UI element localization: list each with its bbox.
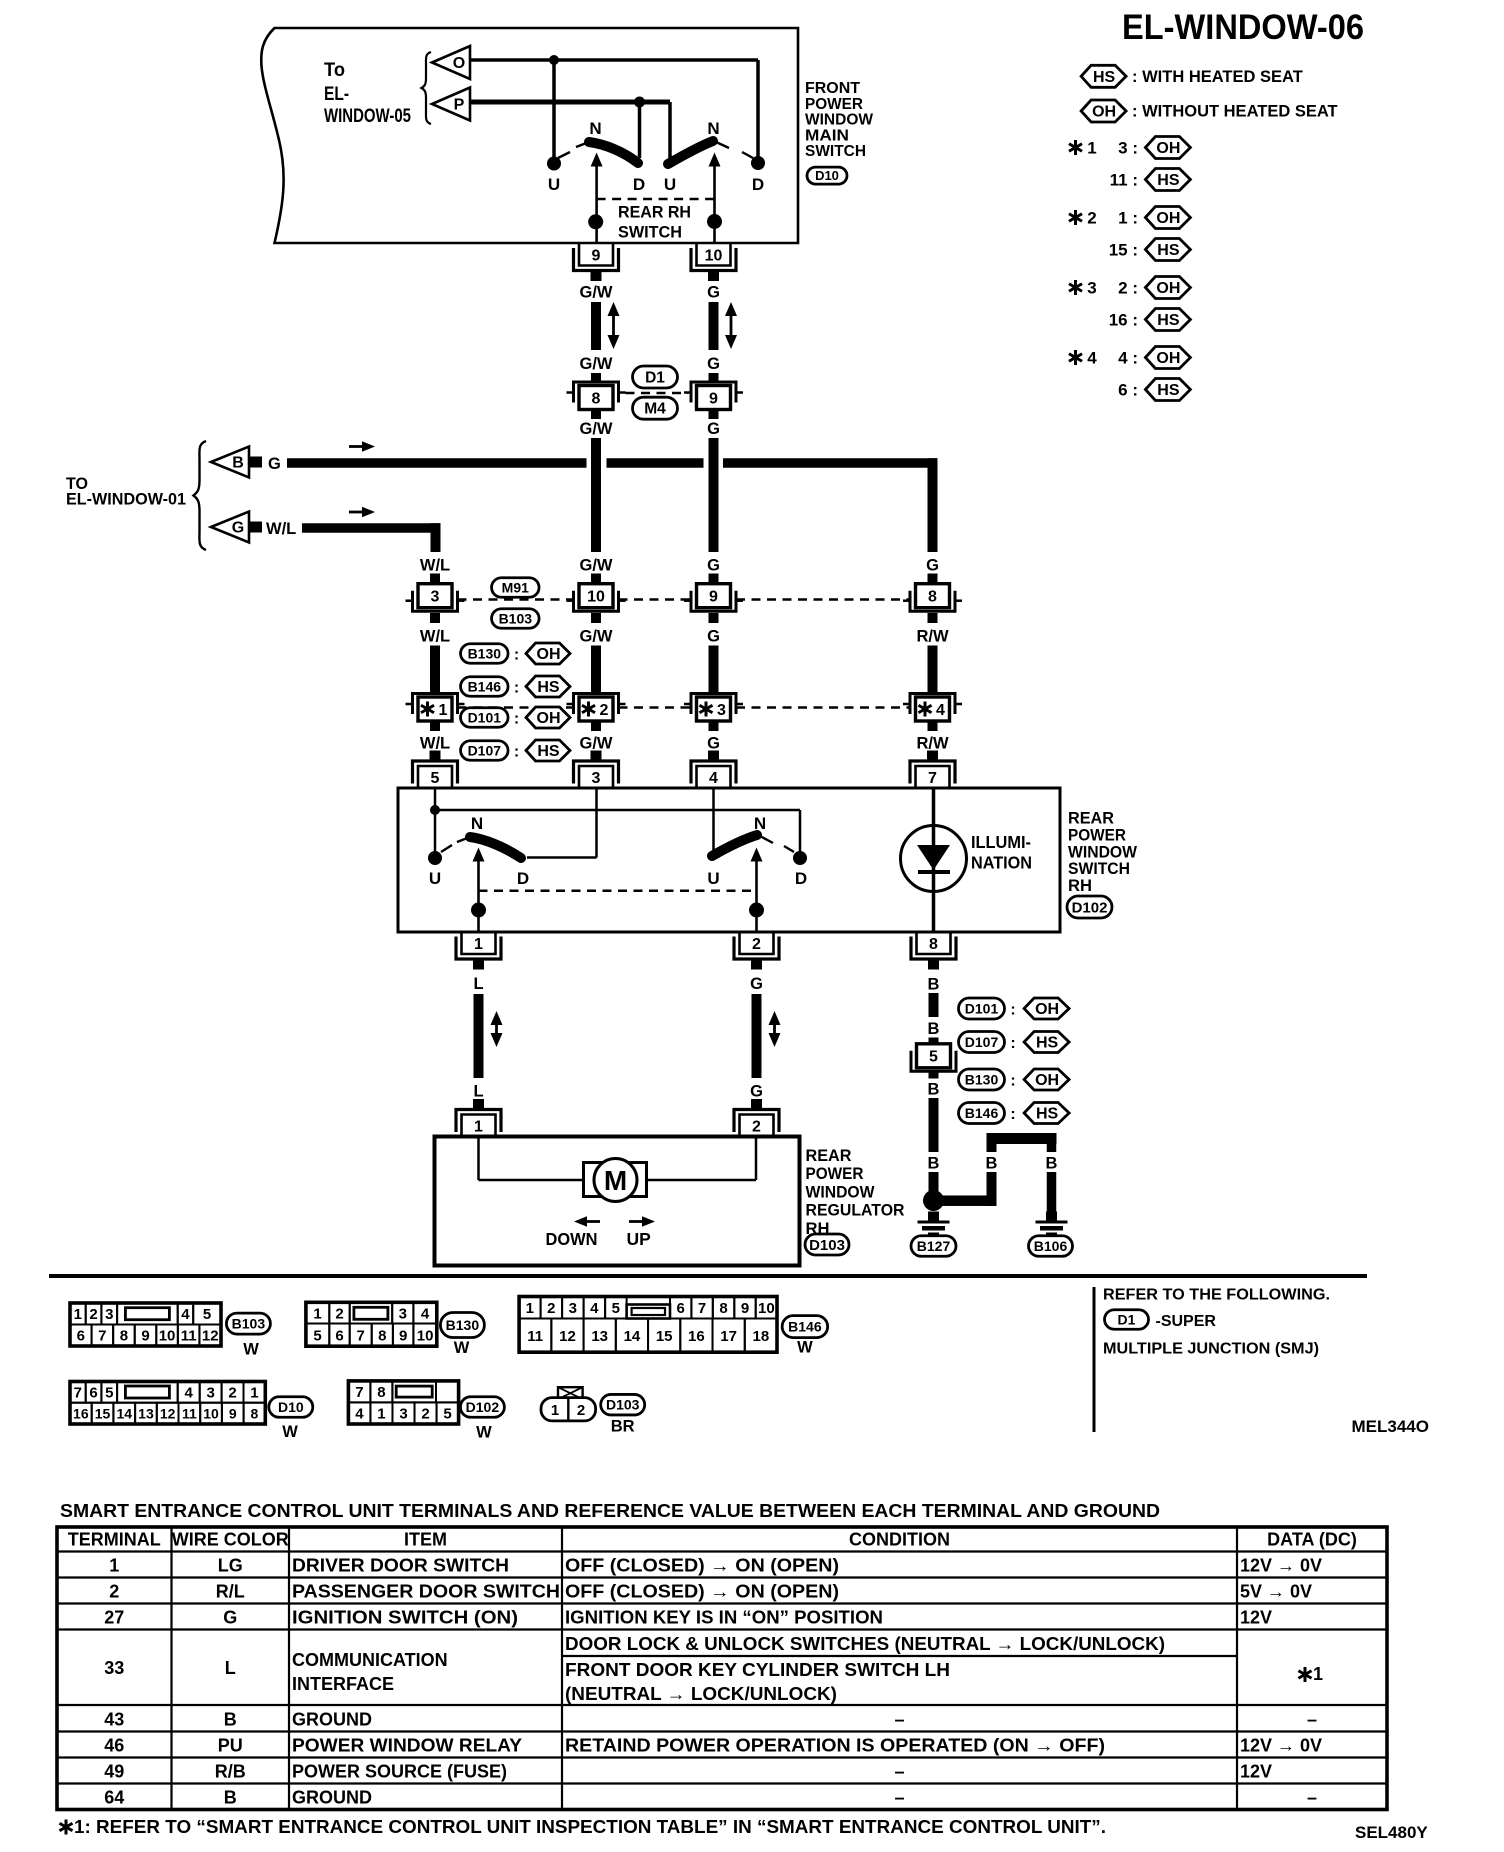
svg-text:D1: D1	[645, 369, 665, 386]
connector ref D107 oval	[959, 1032, 1005, 1053]
wire stub	[928, 613, 938, 623]
svg-text:1: 1	[526, 1300, 534, 1317]
svg-text:OH: OH	[1156, 280, 1180, 297]
svg-text:LG: LG	[218, 1556, 243, 1576]
svg-text:D1: D1	[1118, 1311, 1136, 1327]
svg-text:12V: 12V	[1240, 1608, 1272, 1628]
connector *2	[579, 697, 613, 721]
svg-text:1: 1	[313, 1305, 321, 1322]
svg-text:2 :: 2 :	[1118, 279, 1138, 298]
svg-text:9: 9	[592, 247, 601, 264]
svg-text:N: N	[471, 814, 483, 833]
wire stub	[591, 613, 601, 623]
svg-text:11: 11	[527, 1328, 543, 1345]
svg-text:REAR: REAR	[806, 1146, 852, 1165]
svg-text:OH: OH	[1156, 210, 1180, 227]
wire stub	[591, 574, 601, 585]
svg-text:M91: M91	[502, 579, 529, 595]
svg-text:B: B	[224, 1788, 237, 1808]
svg-text:43: 43	[104, 1710, 124, 1730]
svg-text:-SUPER: -SUPER	[1156, 1313, 1217, 1330]
svg-text:G/W: G/W	[580, 284, 613, 302]
switch 2 arc	[668, 141, 713, 164]
wire G segment	[752, 994, 762, 1078]
front power window main switch D10 box	[261, 28, 798, 243]
svg-text:G: G	[707, 420, 720, 438]
svg-text:8: 8	[377, 1384, 385, 1401]
wire motor left	[477, 1137, 480, 1181]
svg-text:–: –	[1307, 1710, 1317, 1730]
svg-text:G: G	[750, 1083, 763, 1101]
svg-text:EL-WINDOW-01: EL-WINDOW-01	[66, 491, 186, 509]
svg-text::: :	[1010, 1073, 1015, 1090]
wire motor right	[755, 1137, 758, 1181]
svg-text:6: 6	[335, 1327, 343, 1344]
svg-text:D107: D107	[965, 1034, 999, 1050]
switch 1 node	[588, 214, 603, 229]
connector ref B130 oval	[461, 644, 509, 664]
svg-text:B127: B127	[917, 1238, 951, 1254]
svg-text:13: 13	[591, 1328, 608, 1345]
svg-text:OH: OH	[1092, 104, 1116, 121]
svg-text:4: 4	[421, 1305, 430, 1322]
connector ref D102 oval	[1067, 896, 1112, 918]
svg-text:12V: 12V	[1240, 1762, 1272, 1782]
wire B segment	[929, 1172, 939, 1192]
svg-text:L: L	[225, 1658, 236, 1678]
svg-text:G: G	[232, 520, 244, 537]
wire P corner down to U contact	[668, 102, 672, 160]
svg-text:D107: D107	[468, 742, 502, 758]
svg-text:R/W: R/W	[916, 735, 949, 753]
wire segment G/W	[591, 646, 601, 693]
svg-text:7: 7	[98, 1328, 106, 1345]
svg-text:1: REFER TO “SMART ENTRANCE CO: 1: REFER TO “SMART ENTRANCE CONTROL UNIT…	[74, 1817, 1106, 1837]
connector *1	[418, 697, 452, 721]
svg-text:8: 8	[120, 1328, 128, 1345]
svg-text:OH: OH	[1156, 350, 1180, 367]
svg-text:3 :: 3 :	[1118, 139, 1138, 158]
wire O down to D contact	[756, 60, 760, 157]
rear switch 1 arrow	[473, 848, 485, 862]
svg-text:10: 10	[203, 1405, 219, 1421]
node in switch box	[430, 805, 440, 815]
svg-text:SEL480Y: SEL480Y	[1355, 1823, 1428, 1842]
connector D103 pin 2	[740, 1115, 774, 1137]
note HS hexagon	[526, 740, 570, 761]
up-down arrow	[773, 1021, 776, 1037]
connector pinout D102	[348, 1381, 458, 1424]
svg-text:16: 16	[688, 1328, 705, 1345]
up-down arrow	[730, 312, 733, 339]
bus wire G corner down	[928, 458, 938, 552]
svg-text:D: D	[795, 869, 807, 888]
connector ref D10 oval	[807, 167, 847, 184]
svg-text:: WITH HEATED SEAT: : WITH HEATED SEAT	[1132, 68, 1303, 86]
svg-text:MAIN: MAIN	[805, 127, 849, 144]
svg-text:D103: D103	[809, 1237, 845, 1254]
svg-text:OH: OH	[537, 646, 561, 663]
svg-text:SMART ENTRANCE CONTROL UNIT TE: SMART ENTRANCE CONTROL UNIT TERMINALS AN…	[60, 1500, 1160, 1521]
svg-text:6: 6	[89, 1385, 97, 1402]
separator line	[49, 1274, 1367, 1278]
connector *4	[916, 697, 950, 721]
wire G/W segment	[591, 302, 601, 350]
connector D102 pin 8	[917, 932, 951, 954]
svg-text:HS: HS	[1157, 312, 1180, 329]
svg-text:10: 10	[705, 247, 723, 264]
wire stub	[591, 373, 601, 382]
svg-text:2: 2	[421, 1406, 429, 1423]
switch 2 D contact	[751, 156, 765, 170]
svg-text:WINDOW-05: WINDOW-05	[324, 106, 411, 127]
connector ref M91 oval	[492, 578, 540, 598]
svg-text::: :	[1010, 1035, 1015, 1052]
svg-text:G: G	[750, 975, 763, 993]
svg-text:HS: HS	[1036, 1035, 1059, 1052]
wire stub	[709, 613, 719, 623]
svg-text:4: 4	[181, 1306, 190, 1323]
svg-text:16: 16	[73, 1405, 89, 1421]
svg-text:11: 11	[182, 1405, 197, 1421]
svg-text:U: U	[664, 175, 676, 194]
wire branch to B106	[934, 1195, 997, 1206]
connector ref D102 oval	[460, 1397, 504, 1418]
flow arrow on W/L bus	[349, 511, 365, 514]
rear switch 1 arc	[470, 837, 521, 858]
svg-text:3: 3	[717, 702, 726, 719]
svg-text:12V → 0V: 12V → 0V	[1240, 1736, 1322, 1756]
svg-text:3: 3	[569, 1300, 577, 1317]
rear rh switch dashed link	[597, 198, 715, 201]
svg-text:IGNITION SWITCH (ON): IGNITION SWITCH (ON)	[292, 1608, 518, 1628]
wire G segment	[709, 302, 719, 350]
svg-text:HS: HS	[1093, 69, 1116, 86]
svg-text:R/B: R/B	[215, 1762, 246, 1782]
svg-text:7: 7	[357, 1327, 365, 1344]
connector ref D1 oval	[1105, 1310, 1149, 1330]
svg-text:5: 5	[929, 1049, 938, 1066]
svg-text:B: B	[928, 1081, 940, 1099]
svg-text:D: D	[752, 175, 764, 194]
svg-text:HS: HS	[1157, 242, 1180, 259]
connector pinout B146	[519, 1297, 777, 1353]
svg-text:8: 8	[929, 936, 938, 953]
svg-text:B130: B130	[446, 1317, 480, 1333]
svg-text:10: 10	[417, 1327, 434, 1344]
connector D102 pin 1	[462, 932, 496, 954]
connector ref D101 oval	[461, 708, 509, 728]
svg-text:16 :: 16 :	[1109, 311, 1138, 330]
wire stub below SMJ	[591, 410, 601, 420]
rear switch 1 U contact	[428, 851, 442, 865]
svg-text:CONDITION: CONDITION	[849, 1530, 950, 1550]
svg-text:–: –	[894, 1710, 904, 1730]
wire pin5 to node	[434, 788, 437, 810]
svg-text:27: 27	[104, 1608, 124, 1628]
svg-text:B106: B106	[1034, 1238, 1068, 1254]
svg-text:5: 5	[443, 1406, 451, 1423]
svg-text:1: 1	[377, 1406, 385, 1423]
node on P wire	[634, 97, 645, 108]
wire stub	[928, 574, 938, 585]
svg-text:D: D	[517, 869, 529, 888]
svg-text:1: 1	[474, 936, 483, 953]
rear switch 2 D contact	[793, 851, 807, 865]
svg-text:2: 2	[752, 936, 761, 953]
note OH hexagon	[526, 707, 570, 728]
svg-text:B103: B103	[499, 610, 533, 626]
note *4 star	[1074, 350, 1077, 365]
svg-text:5: 5	[203, 1306, 211, 1323]
svg-text:3: 3	[399, 1406, 407, 1423]
bus wire G segment 3	[723, 458, 938, 468]
svg-text:ITEM: ITEM	[404, 1530, 447, 1550]
svg-text:FRONT: FRONT	[805, 80, 861, 97]
svg-text:4 :: 4 :	[1118, 349, 1138, 368]
svg-text:HS: HS	[1036, 1106, 1059, 1123]
svg-text:RH: RH	[1068, 876, 1092, 895]
svg-text:14: 14	[624, 1328, 641, 1345]
svg-text:WINDOW: WINDOW	[806, 1182, 876, 1201]
svg-text:12V → 0V: 12V → 0V	[1240, 1556, 1322, 1576]
switch 1 arrow	[591, 153, 603, 167]
svg-text:3: 3	[399, 1305, 407, 1322]
svg-text:3: 3	[206, 1385, 214, 1402]
svg-text:2: 2	[752, 1118, 761, 1135]
wire node across to D contact	[435, 809, 800, 812]
svg-text:15: 15	[656, 1328, 673, 1345]
wire G long segment	[709, 438, 719, 552]
svg-text:L: L	[473, 975, 483, 993]
svg-text:B: B	[986, 1155, 998, 1173]
note *1 star	[1074, 140, 1077, 155]
svg-text:4: 4	[590, 1300, 599, 1317]
bus wire W/L	[302, 523, 441, 533]
svg-text:DOWN: DOWN	[546, 1229, 598, 1249]
connector triangle B	[211, 447, 249, 478]
svg-text::: :	[1010, 1002, 1015, 1019]
connector pin 5 (D101/D107/B130/B146)	[917, 1044, 951, 1068]
svg-text:N: N	[589, 119, 601, 138]
svg-text:G: G	[707, 557, 720, 575]
svg-text:18: 18	[753, 1328, 770, 1345]
svg-text:B146: B146	[468, 678, 502, 694]
svg-text:5: 5	[612, 1300, 620, 1317]
svg-text:9: 9	[741, 1300, 749, 1317]
svg-text:W/L: W/L	[420, 735, 450, 753]
svg-text:11 :: 11 :	[1110, 171, 1138, 190]
svg-text:B: B	[1046, 1155, 1058, 1173]
svg-text:1: 1	[551, 1402, 559, 1419]
svg-text:4: 4	[355, 1406, 364, 1423]
svg-text:W/L: W/L	[420, 628, 450, 646]
svg-text:49: 49	[104, 1762, 124, 1782]
wire O to U contact	[552, 60, 556, 157]
svg-text::: :	[514, 744, 519, 761]
legend OH symbol	[1081, 100, 1126, 122]
svg-text:POWER: POWER	[805, 96, 863, 113]
svg-text:B: B	[928, 1020, 940, 1038]
svg-text:G/W: G/W	[580, 355, 613, 373]
connector ref B127 oval	[911, 1236, 956, 1257]
note HS hexagon	[1024, 1032, 1069, 1053]
svg-text:5V → 0V: 5V → 0V	[1240, 1582, 1312, 1602]
svg-text:GROUND: GROUND	[292, 1788, 372, 1808]
svg-text:W: W	[243, 1341, 259, 1359]
svg-text:8: 8	[719, 1300, 727, 1317]
svg-text:RETAIND POWER OPERATION IS OPE: RETAIND POWER OPERATION IS OPERATED (ON …	[565, 1736, 1105, 1756]
brace for EL-WINDOW-01	[194, 441, 207, 550]
wire P horizontal	[470, 100, 670, 105]
switch 2 arrow	[709, 153, 721, 167]
svg-text:–: –	[894, 1788, 904, 1808]
up-down arrow	[495, 1021, 498, 1037]
svg-text:B146: B146	[788, 1319, 822, 1335]
connector M91/B103 pin 8	[916, 584, 950, 608]
table grid	[57, 1527, 1387, 1810]
svg-text:OH: OH	[1035, 1001, 1059, 1018]
svg-text:D102: D102	[466, 1399, 500, 1415]
connector pinout D10	[70, 1382, 265, 1425]
connector pinout B103	[70, 1303, 221, 1346]
svg-text:9: 9	[709, 588, 718, 605]
svg-text:B130: B130	[468, 645, 502, 661]
svg-text:HS: HS	[537, 743, 560, 760]
wire stub	[430, 613, 440, 623]
wire stub	[929, 1038, 939, 1045]
svg-text:POWER WINDOW RELAY: POWER WINDOW RELAY	[292, 1736, 522, 1756]
svg-text:D101: D101	[965, 1000, 999, 1016]
switch 2 node	[707, 214, 722, 229]
ground B106	[1046, 1212, 1057, 1221]
connector D102 pin 4	[697, 766, 731, 788]
ground junction node	[923, 1190, 944, 1211]
legend HS symbol	[1081, 65, 1126, 87]
svg-text:G/W: G/W	[580, 557, 613, 575]
connector M91/B103 pin 3	[418, 584, 452, 608]
svg-text:11: 11	[181, 1328, 197, 1345]
separator vertical	[1093, 1287, 1096, 1432]
svg-text:7: 7	[698, 1300, 706, 1317]
svg-text:1: 1	[250, 1385, 258, 1402]
connector ref B146 oval	[782, 1316, 828, 1338]
rear switch 2 node	[749, 903, 764, 918]
svg-text:1: 1	[74, 1306, 82, 1323]
svg-text:10: 10	[159, 1328, 176, 1345]
svg-text:O: O	[453, 55, 465, 72]
wire stub	[430, 574, 440, 585]
wire L segment	[474, 994, 484, 1078]
wire stub below SMJ	[709, 410, 719, 420]
svg-text:5: 5	[431, 770, 440, 787]
svg-text:L: L	[473, 1083, 483, 1101]
svg-text:B: B	[928, 976, 940, 994]
svg-text:2: 2	[1087, 209, 1096, 228]
svg-text:G: G	[223, 1608, 237, 1628]
connector triangle P	[432, 88, 470, 121]
svg-text:N: N	[754, 814, 766, 833]
note HS hexagon	[526, 676, 570, 697]
svg-text:12: 12	[202, 1328, 219, 1345]
note *2 star	[1074, 210, 1077, 225]
svg-text:1: 1	[439, 702, 448, 719]
svg-text:8: 8	[378, 1327, 386, 1344]
dashed link row2	[458, 706, 574, 709]
node on O wire	[549, 55, 559, 65]
svg-text:10: 10	[758, 1300, 775, 1317]
svg-text:OFF (CLOSED) → ON (OPEN): OFF (CLOSED) → ON (OPEN)	[565, 1556, 839, 1576]
svg-text:W: W	[282, 1423, 298, 1441]
connector pinout B130	[306, 1302, 437, 1346]
wire stub	[709, 373, 719, 382]
connector ref B130 oval	[440, 1313, 484, 1338]
connector D10 pin 10	[697, 244, 731, 266]
svg-text:M: M	[604, 1165, 627, 1196]
svg-text:G/W: G/W	[580, 628, 613, 646]
svg-text:D102: D102	[1072, 899, 1108, 916]
svg-text:D103: D103	[606, 1397, 640, 1413]
svg-text:U: U	[429, 869, 441, 888]
svg-text:64: 64	[104, 1788, 124, 1808]
svg-text:EL-WINDOW-06: EL-WINDOW-06	[1122, 8, 1364, 47]
svg-text:13: 13	[138, 1405, 154, 1421]
svg-text:BR: BR	[611, 1418, 635, 1436]
svg-text:4: 4	[1087, 349, 1097, 368]
svg-text:W: W	[476, 1424, 492, 1442]
svg-text:MEL344O: MEL344O	[1352, 1417, 1429, 1436]
connector ref B146 oval	[461, 677, 509, 697]
flow arrow on G bus	[349, 445, 365, 448]
table footnote	[65, 1820, 68, 1835]
svg-text:B146: B146	[965, 1105, 999, 1121]
up-down arrow	[612, 312, 615, 339]
wire G/W long segment	[591, 438, 601, 552]
wire B segment	[929, 1098, 939, 1152]
note HS hexagon	[1024, 1103, 1069, 1124]
svg-text:PASSENGER DOOR SWITCH: PASSENGER DOOR SWITCH	[292, 1582, 560, 1602]
svg-text:M4: M4	[644, 401, 666, 418]
note OH hexagon	[1024, 1069, 1069, 1090]
svg-text:W/L: W/L	[266, 520, 296, 538]
SMJ connector 9	[697, 386, 731, 410]
svg-text:OFF (CLOSED) → ON (OPEN): OFF (CLOSED) → ON (OPEN)	[565, 1582, 839, 1602]
svg-text:R/L: R/L	[216, 1582, 245, 1602]
svg-text:OH: OH	[537, 710, 561, 727]
svg-text:HS: HS	[1157, 172, 1180, 189]
svg-text:TERMINAL: TERMINAL	[68, 1530, 161, 1550]
svg-text::: :	[514, 680, 519, 697]
svg-text:7: 7	[355, 1384, 363, 1401]
svg-text:1: 1	[474, 1118, 483, 1135]
connector ref B106 oval	[1029, 1236, 1073, 1257]
svg-text:2: 2	[547, 1300, 555, 1317]
svg-text:D101: D101	[468, 709, 502, 725]
svg-text:U: U	[707, 869, 719, 888]
svg-text:8: 8	[928, 588, 937, 605]
svg-text:9: 9	[141, 1328, 149, 1345]
svg-text:G: G	[268, 455, 281, 473]
svg-text:4: 4	[709, 770, 718, 787]
svg-text:EL-: EL-	[324, 84, 349, 105]
svg-text:B130: B130	[965, 1071, 999, 1087]
bus wire G segment 1	[287, 458, 587, 468]
svg-text:46: 46	[104, 1736, 124, 1756]
svg-text:2: 2	[228, 1385, 236, 1402]
svg-text::: :	[514, 647, 519, 664]
svg-text:DOOR LOCK & UNLOCK SWITCHES (N: DOOR LOCK & UNLOCK SWITCHES (NEUTRAL → L…	[565, 1634, 1165, 1654]
svg-text:HS: HS	[537, 679, 560, 696]
